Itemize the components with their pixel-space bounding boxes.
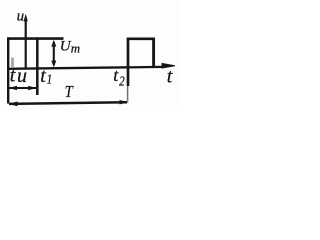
svg-text:2: 2 <box>119 73 125 88</box>
svg-text:t: t <box>40 65 46 87</box>
Um dimension up arrowhead <box>51 40 56 47</box>
u-axis arrowhead <box>24 14 28 22</box>
svg-text:t: t <box>167 66 173 88</box>
svg-text:m: m <box>71 41 80 56</box>
Um dimension line <box>53 42 55 65</box>
period T dimension line <box>9 102 127 104</box>
pulse 1 right edge with t1 extension line <box>36 38 39 96</box>
T left arrowhead <box>8 102 17 107</box>
svg-text:t: t <box>10 64 16 86</box>
t_i pulse width dimension arrow <box>9 87 36 89</box>
t-axis arrowhead <box>162 63 176 69</box>
svg-text:и: и <box>17 65 27 87</box>
svg-text:T: T <box>65 83 74 101</box>
svg-text:u: u <box>17 9 25 25</box>
pulse 2 right edge <box>152 38 155 68</box>
pulse 2 top line <box>127 37 155 40</box>
pulse 1 top line with Um extension <box>7 37 64 40</box>
pulse 1 left edge with dimension extension line <box>7 38 9 104</box>
t-axis baseline <box>7 67 163 69</box>
Um dimension down arrowhead <box>51 61 56 68</box>
scan smudge inside pulse 1 <box>11 58 14 68</box>
t_i right arrowhead <box>28 86 36 90</box>
u-axis vertical line <box>25 19 27 68</box>
t_i left arrowhead <box>9 86 17 90</box>
svg-text:1: 1 <box>47 71 53 86</box>
t2 faint extension line down to T line <box>127 86 129 102</box>
T right arrowhead <box>120 100 129 104</box>
pulse 2 left edge <box>127 38 130 86</box>
